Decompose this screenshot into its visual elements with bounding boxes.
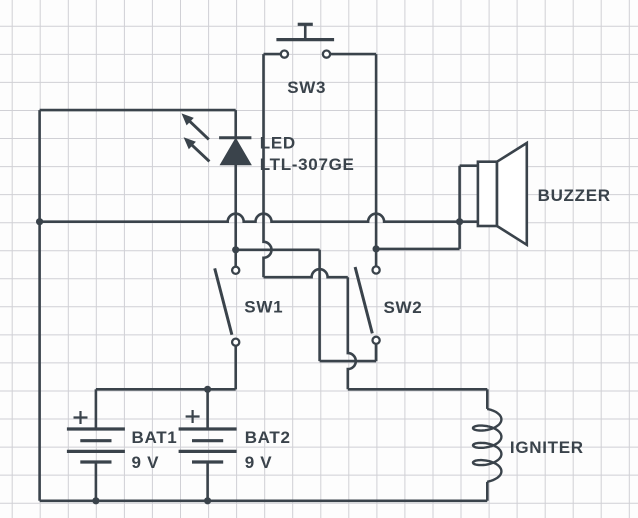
svg-text:9 V: 9 V <box>245 453 273 472</box>
svg-text:BAT2: BAT2 <box>245 428 291 447</box>
svg-text:SW2: SW2 <box>384 298 423 317</box>
svg-text:SW3: SW3 <box>287 78 326 97</box>
svg-text:LTL-307GE: LTL-307GE <box>260 155 355 174</box>
svg-text:IGNITER: IGNITER <box>510 438 584 457</box>
svg-text:LED: LED <box>260 133 296 152</box>
svg-text:9 V: 9 V <box>132 453 160 472</box>
svg-text:SW1: SW1 <box>244 297 283 316</box>
svg-text:BUZZER: BUZZER <box>538 186 611 205</box>
svg-text:BAT1: BAT1 <box>132 428 178 447</box>
